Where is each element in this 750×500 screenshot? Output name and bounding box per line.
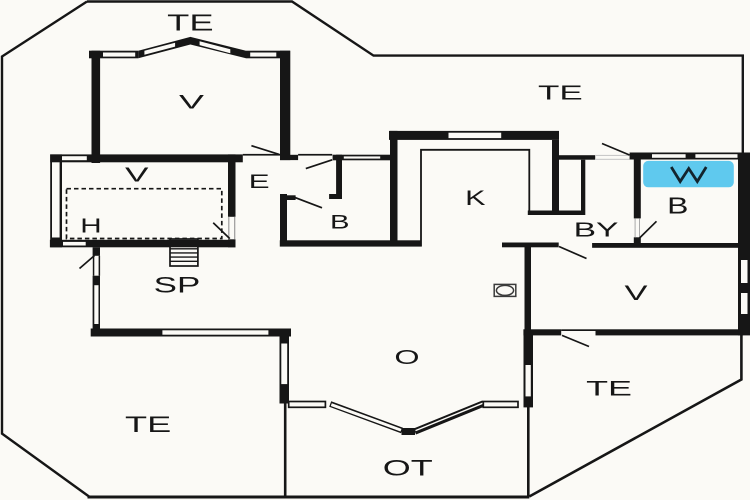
- door leaf V-lower to TE: [562, 335, 589, 346]
- svg-text:OT: OT: [383, 455, 433, 480]
- jamb lines entry door: [93, 256, 95, 276]
- wall W/B left lower stub: [634, 237, 641, 244]
- thin jamb line BY terrace door: [595, 155, 630, 156]
- door leaf entry: [80, 256, 95, 269]
- svg-text:SP: SP: [154, 273, 201, 298]
- wall V1 top-left room left wall: [92, 51, 101, 163]
- wall duct top: [558, 155, 596, 160]
- svg-text:TE: TE: [167, 9, 213, 35]
- terrace line OT left: [284, 403, 287, 497]
- wall V-lower left: [525, 243, 532, 336]
- window 2 in W/B top: [695, 154, 737, 158]
- door leaf E terrace: [306, 160, 332, 169]
- sliding door leaf left open: [330, 404, 402, 431]
- window in left diagonal: [144, 43, 175, 55]
- window in H/V top wall: [62, 156, 87, 160]
- door leaf B-right: [637, 221, 657, 240]
- svg-text:TE: TE: [586, 377, 632, 400]
- wall K left: [390, 131, 398, 247]
- window 2 in right wall: [741, 293, 748, 314]
- wall E top band with window: [333, 155, 392, 161]
- appliance symbol: [494, 284, 516, 296]
- door leaf B: [295, 197, 322, 207]
- door leaf H/V to E: [213, 223, 230, 239]
- wall B top: [280, 195, 296, 200]
- thin line over V-lower door gap: [561, 329, 595, 331]
- wall divider BY left piece: [502, 243, 559, 248]
- svg-text:V: V: [125, 164, 150, 186]
- label W (drawn as strokes): [672, 168, 706, 181]
- wall O bottom: [91, 329, 291, 337]
- svg-text:B: B: [330, 212, 350, 234]
- wall W/B top: [630, 153, 741, 160]
- wall K right: [552, 140, 559, 211]
- window in K top wall: [449, 133, 502, 138]
- svg-text:BY: BY: [574, 219, 619, 242]
- wall V-lower bottom right piece: [596, 329, 744, 335]
- wall H/V bottom: [50, 240, 236, 248]
- window in right diagonal: [200, 41, 231, 53]
- wall E/B divider: [336, 155, 342, 199]
- wall K foot bar: [528, 211, 584, 216]
- blue W zone: [643, 161, 734, 187]
- wall E/B divider foot: [329, 194, 342, 199]
- door leaf BY to V: [559, 247, 587, 259]
- door leaf BY to TE: [602, 144, 630, 156]
- svg-text:E: E: [249, 172, 270, 193]
- wall V1 right wall: [280, 51, 290, 160]
- window in that wall: [526, 365, 531, 396]
- svg-text:H: H: [80, 216, 101, 238]
- window in O left wall: [94, 285, 98, 324]
- svg-text:TE: TE: [125, 412, 171, 437]
- sliding door bar left: [289, 402, 326, 408]
- window 1 in right wall: [741, 260, 748, 283]
- window in H/V bottom wall: [63, 242, 86, 246]
- window in O bottom wall: [162, 330, 268, 334]
- wall K top: [389, 131, 559, 140]
- stairs SP: [170, 239, 198, 266]
- wall B bottom: [280, 240, 422, 246]
- wall divider B/V right: [592, 243, 738, 248]
- door leaf V-top: [251, 146, 279, 155]
- wall V1 top horizontal left: [89, 51, 138, 59]
- wall H/V right: [228, 154, 236, 247]
- wall below V-lower (TE boundary): [524, 335, 534, 407]
- window in V1 top-left wall: [103, 53, 135, 57]
- svg-text:V: V: [179, 92, 204, 114]
- window in V1 top-right wall: [250, 53, 276, 57]
- entry door gap: [92, 256, 101, 276]
- wall H/V left: [50, 154, 62, 247]
- wall B left: [280, 194, 287, 247]
- wall O right of doorway: [280, 330, 290, 404]
- window in H/V left wall: [52, 162, 60, 237]
- thin line over V-top door gap: [243, 154, 280, 156]
- wall V1 top horizontal right: [246, 51, 290, 59]
- wall duct hanging: [581, 160, 585, 215]
- svg-text:K: K: [465, 187, 485, 210]
- wall right outer: [738, 153, 750, 336]
- terrace line OT right: [527, 407, 530, 497]
- jamb lines H/V right door: [228, 217, 229, 240]
- svg-text:TE: TE: [538, 82, 583, 104]
- sliding door bar right: [483, 402, 518, 408]
- K counter thin line: [421, 150, 529, 247]
- svg-text:V: V: [625, 282, 648, 305]
- svg-text:B: B: [667, 193, 688, 219]
- wall O left: [93, 247, 100, 336]
- door gap in H/V right wall: [227, 217, 237, 240]
- wall V-lower bottom left piece: [523, 329, 561, 335]
- sliding door leaf right open: [415, 404, 484, 432]
- window in that wall: [281, 344, 287, 385]
- wall W/B left: [634, 160, 641, 219]
- terrace outline top: [87, 2, 743, 153]
- window 1 in W/B top: [652, 154, 686, 158]
- terrace diagonal bottom right: [529, 334, 741, 497]
- terrace outline left and bottom: [2, 2, 89, 497]
- svg-text:O: O: [394, 347, 419, 369]
- dashed rect in H/V room: [67, 189, 222, 239]
- wall H/V top: [50, 154, 243, 162]
- wall V1 right wall foot: [280, 155, 298, 160]
- jamb lines B-right door: [635, 218, 636, 237]
- thin line over E terrace door gap: [298, 154, 332, 156]
- black nib center: [402, 428, 416, 435]
- window in E top band: [344, 156, 380, 158]
- wall V1 peak band: [138, 37, 246, 58]
